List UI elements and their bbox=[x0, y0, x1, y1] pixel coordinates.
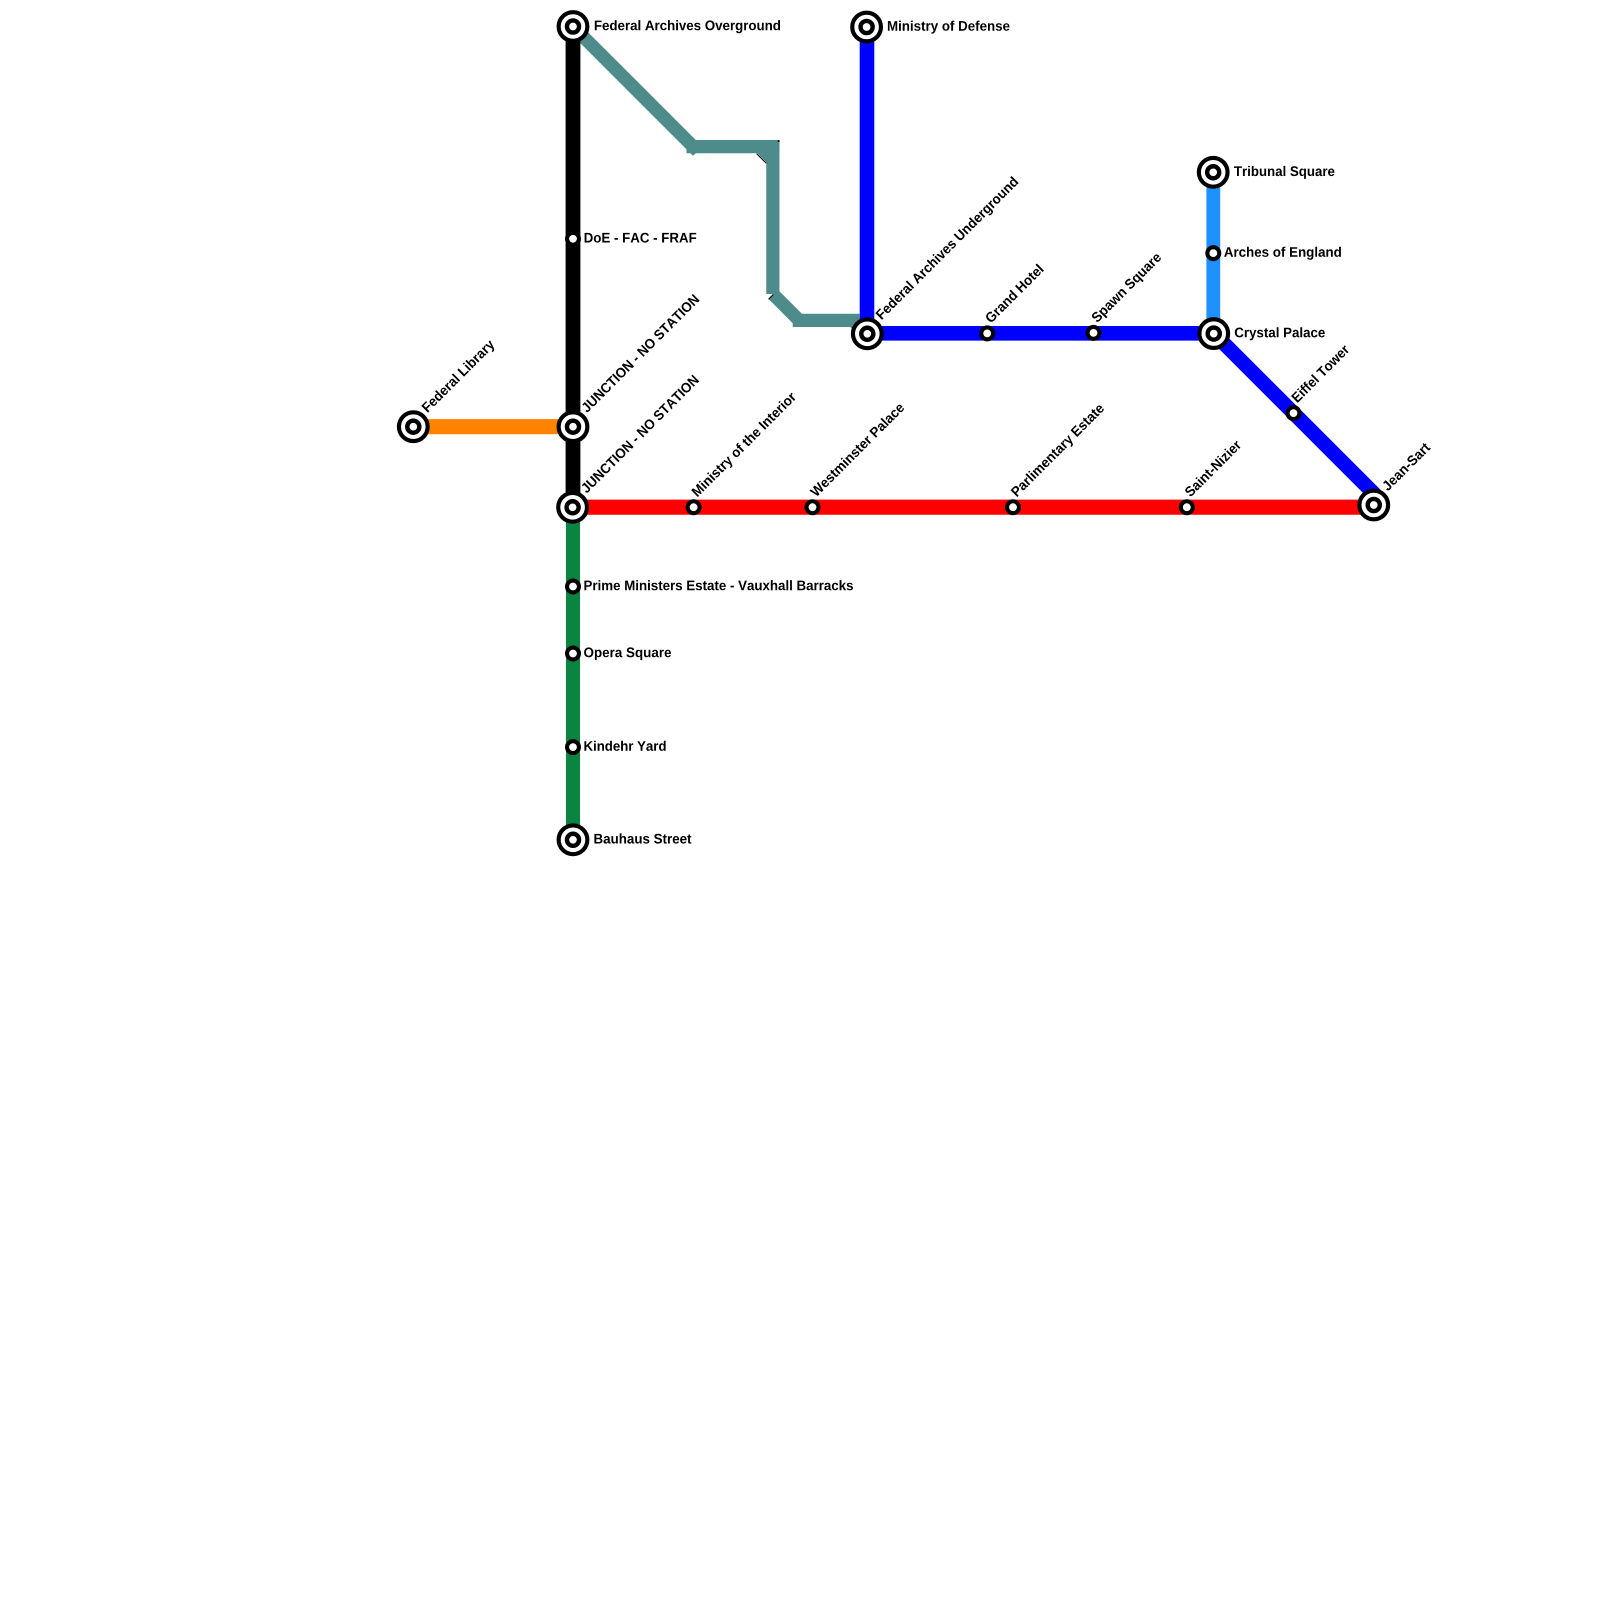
label Eiffel Tower (rotated) bbox=[1291, 343, 1350, 402]
label Westminster Palace (rotated) bbox=[809, 402, 905, 498]
wire blue horizontal bbox=[860, 326, 1221, 341]
station Spawn Square (small) bbox=[1088, 327, 1100, 339]
label Federal Archives Overground bbox=[595, 20, 780, 33]
label Prime Ministers Estate - Vauxhall Barracks bbox=[584, 580, 853, 590]
station Prime Ministers Estate - Vauxhall Barracks (small) bbox=[567, 581, 579, 593]
station Opera Square (small) bbox=[567, 648, 579, 660]
wire teal diagonal into Federal Archives Underground bbox=[853, 320, 867, 334]
station Parlimentary Estate (small) bbox=[1007, 501, 1019, 513]
corner dot artifact at teal outer corner bbox=[778, 140, 780, 142]
blue line Ministry of Defense - Jean-Sart bbox=[860, 27, 1381, 501]
label Jean-Sart (rotated) bbox=[1381, 442, 1431, 492]
label Parlimentary Estate (rotated) bbox=[1010, 402, 1107, 499]
label Federal Library (rotated) bbox=[421, 338, 497, 414]
label Bauhaus Street bbox=[594, 833, 691, 843]
bevel artifact near teal lower corner bbox=[769, 295, 774, 300]
station Crystal Palace (interchange) bbox=[1199, 319, 1228, 348]
station Jean-Sart (interchange) bbox=[1359, 491, 1388, 520]
wire teal horizontal 1 bbox=[686, 140, 779, 153]
label Arches of England bbox=[1224, 247, 1341, 260]
bevel artifact near teal jog corner bbox=[757, 154, 767, 164]
station junction 2 JUNCTION - NO STATION (interchange) bbox=[558, 493, 587, 522]
dodger blue line Tribunal Square - Crystal Palace bbox=[1206, 172, 1220, 333]
green line junction 2 - Bauhaus Street bbox=[566, 507, 580, 840]
station Ministry of Defense (interchange) bbox=[852, 13, 881, 42]
station junction 1 JUNCTION - NO STATION (interchange) bbox=[559, 412, 588, 441]
station Ministry of the Interior (small) bbox=[688, 501, 700, 513]
label Kindehr Yard bbox=[584, 741, 665, 751]
orange line Federal Library - junction 1 bbox=[413, 419, 573, 434]
red line junction 2 - Jean-Sart bbox=[573, 500, 1374, 515]
station Tribunal Square (interchange) bbox=[1199, 158, 1228, 187]
station Bauhaus Street (interchange) bbox=[559, 825, 588, 854]
label JUNCTION - NO STATION (rotated) bbox=[580, 374, 699, 493]
station Saint-Nizier (small) bbox=[1181, 501, 1193, 513]
wire teal vertical bbox=[766, 140, 779, 294]
teal line FAO-FAU bbox=[573, 27, 867, 335]
label Saint-Nizier (rotated) bbox=[1184, 439, 1242, 497]
label DoE - FAC - FRAF bbox=[585, 233, 697, 243]
label Ministry of Defense bbox=[888, 21, 1010, 34]
wire teal diagonal from Federal Archives Overground bbox=[573, 27, 698, 152]
station Federal Archives Overground (interchange) bbox=[559, 12, 588, 41]
wire blue vertical bbox=[860, 27, 875, 341]
label Ministry of the Interior (rotated) bbox=[691, 391, 799, 499]
station Federal Library (interchange) bbox=[399, 412, 428, 441]
station Kindehr Yard (small) bbox=[567, 741, 579, 753]
station Federal Archives Underground (interchange) bbox=[853, 319, 882, 348]
label Tribunal Square bbox=[1234, 166, 1334, 179]
label JUNCTION - NO STATION (rotated) bbox=[580, 294, 699, 413]
station Westminster Palace (small) bbox=[807, 501, 819, 513]
station Eiffel Tower (small) bbox=[1288, 407, 1300, 419]
station DoE - FAC - FRAF (small) bbox=[567, 233, 579, 245]
wire teal horizontal 2 bbox=[793, 314, 860, 327]
wire teal diagonal 2 bbox=[773, 294, 799, 320]
label Opera Square bbox=[584, 647, 671, 660]
label Spawn Square (rotated) bbox=[1091, 252, 1164, 325]
station Grand Hotel (small) bbox=[981, 327, 993, 339]
wire blue diagonal to Jean-Sart bbox=[1209, 328, 1381, 500]
label Federal Archives Underground (rotated) bbox=[875, 176, 1021, 322]
station Arches of England (small) bbox=[1207, 247, 1219, 259]
wire teal jog bbox=[760, 147, 773, 160]
black line FAO-junction2 bbox=[566, 27, 581, 508]
label Crystal Palace bbox=[1235, 327, 1325, 340]
label Grand Hotel (rotated) bbox=[984, 264, 1044, 324]
